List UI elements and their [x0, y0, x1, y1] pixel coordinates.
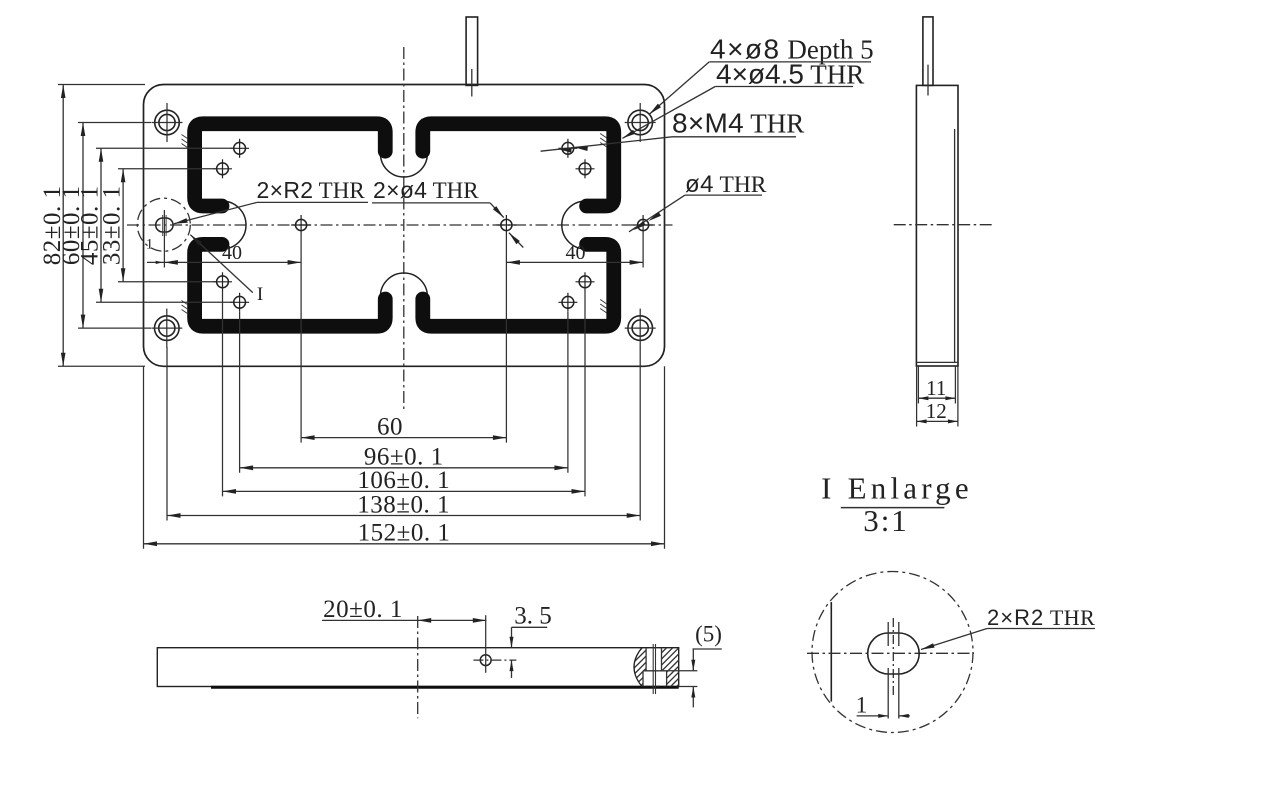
section counterbore step extension lines: [667, 670, 698, 672]
corner counterbore hole top-right (4xD8/D4.5): [628, 110, 653, 135]
bottom view outline: [157, 648, 678, 687]
dimension 12: [917, 420, 958, 422]
extension line top corner hole to left (60 dim): [78, 122, 151, 124]
extension line M4 hole row y282 to left (33 dim): [118, 281, 216, 283]
right notch circle arc: [562, 201, 586, 249]
leader line tail below phi4 hole: [509, 233, 523, 248]
tiny dimension 1 at slot: [147, 261, 164, 263]
svg-text:2×ø4 THR: 2×ø4 THR: [373, 177, 479, 203]
extension line plate top edge to left: [58, 84, 145, 86]
leader line through M4 hole: [541, 137, 672, 151]
extension line M4 hole row y302 to left (45 dim): [96, 301, 233, 303]
section hole edges: [645, 648, 647, 671]
svg-text:2×R2 THR: 2×R2 THR: [257, 177, 366, 203]
M4 threaded hole 5: [562, 142, 574, 154]
M4 threaded hole 2: [217, 163, 229, 175]
detail R2 slot obround: [868, 633, 920, 674]
detail I pointer line and label: [190, 235, 253, 293]
side view pin centerline: [927, 65, 929, 96]
dimension 20+-0.1: [322, 619, 486, 621]
svg-text:33±0. 1: 33±0. 1: [99, 185, 126, 265]
slot arc-center tiny lines: [162, 215, 164, 236]
tick marks group B (left bar outer, lower): [182, 301, 189, 306]
svg-text:3:1: 3:1: [863, 503, 909, 538]
thick groove channel bottom-left segment: [195, 244, 386, 326]
dimension 106+-0.1 horizontal: [223, 490, 586, 492]
extension line plate left corner down (152 dim): [143, 366, 145, 549]
svg-text:138±0. 1: 138±0. 1: [357, 491, 450, 518]
extension line plate bottom edge to left: [58, 365, 145, 367]
vertical centerline of main view: [403, 47, 405, 412]
corner counterbore hole bottom-right (4xD8/D4.5): [628, 316, 653, 341]
dimension 60 horizontal: [301, 437, 506, 439]
extension line M4 hole row y169 to left (33 dim): [118, 168, 216, 170]
M4 threaded hole 6: [579, 163, 591, 175]
svg-text:2×R2 THR: 2×R2 THR: [987, 605, 1095, 630]
horizontal centerline of main view: [127, 224, 673, 226]
side view extension lines for 11/12 dims: [916, 366, 918, 427]
leader line to phi4 hole (upper part): [490, 203, 504, 218]
extension line hole x643 down (40 dim): [642, 235, 644, 268]
extension line M4 x585 down (106 dim): [584, 291, 586, 496]
detail vertical centerline: [892, 618, 894, 698]
detail slot arc-center lines: [887, 622, 889, 646]
svg-text:4×ø4.5 THR: 4×ø4.5 THR: [716, 59, 864, 90]
bottom view thick bottom edge (groove): [211, 686, 679, 689]
tick marks group D (right bar inner, lower): [600, 300, 607, 305]
R2 slot hole left middle (detail I): [156, 218, 173, 232]
dimension 45+-0.1 vertical: [100, 148, 102, 302]
dimension 96+-0.1 horizontal: [240, 467, 568, 469]
extension line hole x301 down (60 dim): [300, 235, 302, 443]
side view pin: [923, 17, 933, 86]
dimension 33+-0.1 vertical: [122, 169, 124, 282]
svg-text:106±0. 1: 106±0. 1: [357, 467, 450, 494]
dimension 3.5 with shelf: [512, 626, 548, 628]
extension line M4 hole row y148 to left (45 dim): [96, 147, 233, 149]
side view horizontal centerline: [894, 224, 992, 226]
phi4 THR hole right end on centerline: [638, 219, 649, 230]
svg-text:40: 40: [222, 242, 242, 264]
extension line M4 x568 down (96 dim): [567, 312, 569, 473]
dimension 11: [918, 397, 955, 399]
thick groove channel top-right segment: [423, 124, 614, 206]
svg-text:I Enlarge: I Enlarge: [821, 471, 973, 506]
phi4 hole left of center on centerline: [296, 219, 307, 230]
thick groove channel bottom-right segment: [423, 244, 614, 326]
detail plate left edge line: [830, 602, 832, 702]
extension line M4 x222 down (106 dim): [222, 291, 224, 496]
extension line M4 x240 down (96 dim): [239, 312, 241, 473]
detail horizontal centerline: [807, 652, 974, 654]
dimension 152+-0.1 horizontal: [144, 543, 665, 545]
left notch circle arc: [222, 201, 246, 249]
top notch circle arc: [380, 154, 427, 178]
phi4 hole right of center on centerline: [501, 219, 512, 230]
bottom view small hole: [480, 655, 491, 666]
svg-text:40: 40: [566, 242, 586, 264]
svg-text:8×M4 THR: 8×M4 THR: [672, 108, 804, 139]
dimension 138+-0.1 horizontal: [167, 515, 640, 517]
svg-text:I: I: [257, 284, 263, 305]
M4 threaded hole 7: [579, 276, 591, 288]
svg-text:11: 11: [926, 376, 946, 400]
svg-text:152±0. 1: 152±0. 1: [358, 520, 451, 547]
leader line to corner hole outer circle: [649, 62, 709, 114]
dimension 82+-0.1 vertical: [62, 85, 64, 367]
svg-text:12: 12: [926, 399, 947, 423]
side view body outline: [916, 85, 958, 366]
M4 threaded hole 8: [562, 296, 574, 308]
locating pin tab on top edge of main view: [466, 17, 478, 85]
svg-text:20±0. 1: 20±0. 1: [323, 596, 403, 623]
corner counterbore hole bottom-left (4xD8/D4.5): [155, 316, 180, 341]
main view plate outline: [144, 85, 665, 367]
slot vertical centerline: [163, 210, 165, 268]
thick groove channel top-left segment: [195, 124, 386, 206]
dimension 60+-0.1 vertical: [82, 123, 84, 329]
svg-text:1: 1: [856, 693, 868, 718]
detail dimension 1: [857, 715, 889, 717]
dimension 40 right horizontal: [506, 261, 643, 263]
extension line left corner hole down (138 dim): [166, 347, 168, 521]
section break arc boundary: [634, 648, 642, 687]
leader line through phi4 hole right: [629, 195, 685, 232]
detail I dashed boundary circle: [137, 198, 190, 251]
extension line plate right corner down (152 dim): [664, 366, 666, 549]
detail dashed boundary circle: [812, 572, 973, 733]
svg-text:1: 1: [146, 237, 154, 253]
svg-text:60: 60: [377, 413, 403, 440]
tick marks group A (left bar outer, upper): [182, 135, 189, 140]
corner counterbore hole top-left (4xD8/D4.5): [155, 110, 180, 135]
M4 threaded hole 1: [234, 142, 246, 154]
dimension 40 left horizontal: [164, 261, 301, 263]
side view inner step line bottom: [916, 361, 958, 363]
section thread lines: [652, 644, 654, 694]
extension line bottom corner hole to left (60 dim): [78, 327, 151, 329]
pin tab centerline: [471, 69, 473, 97]
svg-text:3. 5: 3. 5: [514, 603, 552, 630]
leader line to corner hole inner circle: [623, 87, 716, 139]
tick marks group C (right bar inner, upper): [600, 134, 607, 139]
svg-text:ø4 THR: ø4 THR: [685, 171, 767, 198]
bottom view vertical centerline: [417, 616, 419, 718]
M4 threaded hole 3: [217, 276, 229, 288]
bottom notch circle arc: [380, 273, 427, 297]
leader line to R2 slot: [174, 202, 257, 223]
svg-text:(5): (5): [695, 622, 722, 647]
side view inner step line vertical: [954, 129, 956, 362]
M4 threaded hole 4: [234, 296, 246, 308]
section hole voids (white): [646, 649, 661, 671]
extension line right corner hole down (138 dim): [639, 347, 641, 521]
detail title divider line: [841, 507, 945, 509]
extension line hole x506 down (60 dim): [505, 235, 507, 443]
